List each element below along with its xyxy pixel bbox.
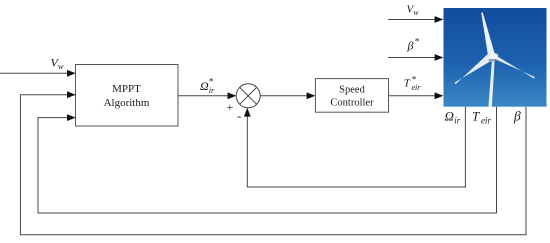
nacelle <box>489 53 499 60</box>
nacelle shadow <box>488 57 496 62</box>
arrowhead into MPPT input 2 <box>67 91 76 98</box>
arrowhead into MPPT input 3 <box>67 114 76 121</box>
blade up <box>481 12 494 55</box>
svg-text:ir: ir <box>454 116 461 126</box>
arrowhead T*eir into turbine <box>435 92 444 99</box>
svg-text:eir: eir <box>412 83 422 92</box>
arrowhead Vw into turbine <box>435 16 444 23</box>
wire Speed Controller to turbine (T*eir) <box>389 95 437 97</box>
wire beta feedback into MPPT input 2 <box>20 95 526 235</box>
block Speed Controller <box>315 79 388 113</box>
svg-text:*: * <box>415 38 420 48</box>
arrowhead up into summing junction minus <box>244 108 251 117</box>
turbine photo block <box>444 8 547 107</box>
svg-text:Speed: Speed <box>339 85 365 96</box>
svg-text:Ω: Ω <box>445 109 454 124</box>
blade lower-left <box>455 54 493 85</box>
summing junction <box>236 84 260 108</box>
wire Teir feedback into MPPT input 3 <box>38 107 497 213</box>
wire MPPT output to summing junction <box>178 95 229 97</box>
blade lower-right <box>493 53 535 78</box>
arrowhead into MPPT input 1 <box>67 70 76 77</box>
svg-text:MPPT: MPPT <box>112 83 141 95</box>
arrowhead into summing junction <box>228 92 237 99</box>
arrowhead into Speed Controller <box>307 92 316 99</box>
tower <box>488 57 494 107</box>
svg-text:Ω: Ω <box>200 79 209 93</box>
wire summing junction to Speed Controller <box>260 95 308 97</box>
svg-text:β: β <box>513 109 521 124</box>
svg-text:T: T <box>404 78 411 90</box>
svg-text:ir: ir <box>209 85 215 95</box>
svg-text:+: + <box>227 100 234 114</box>
wire Vw into turbine <box>388 19 436 21</box>
svg-text:Controller: Controller <box>330 98 374 109</box>
svg-text:eir: eir <box>481 116 491 126</box>
svg-text:Algorithm: Algorithm <box>104 97 150 109</box>
wire Omega_ir output down to inner feedback <box>247 107 465 187</box>
arrowhead beta* into turbine <box>435 54 444 61</box>
wire beta* into turbine <box>388 57 436 59</box>
block MPPT Algorithm <box>76 65 179 127</box>
svg-text:-: - <box>237 108 241 123</box>
svg-text:β: β <box>407 39 414 53</box>
wire Vw input to MPPT <box>0 72 69 74</box>
svg-text:T: T <box>472 109 480 124</box>
